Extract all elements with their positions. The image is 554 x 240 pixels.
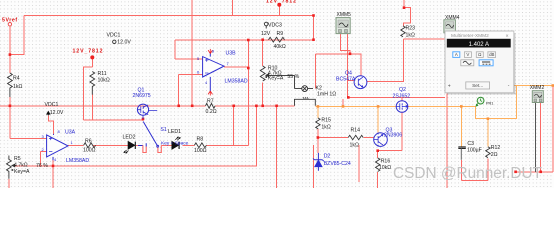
svg-text:Key = Space: Key = Space [161, 140, 189, 146]
svg-text:1kΩ: 1kΩ [350, 142, 359, 148]
svg-text:XMM5: XMM5 [337, 12, 352, 18]
capacitor C3 [458, 147, 466, 149]
node Q1 bottom [142, 118, 145, 121]
svg-text:12.0V: 12.0V [50, 110, 64, 116]
svg-text:S1: S1 [160, 127, 166, 133]
svg-text:VDC3: VDC3 [268, 23, 282, 29]
wire vertical x192 from top edge [191, 0, 193, 106]
node R9 right [312, 38, 315, 41]
wire U3B minus input [179, 75, 203, 106]
wire orange rail y106.4 [315, 105, 475, 107]
wire bottom right line [516, 86, 553, 172]
node rail x262.7 [261, 105, 264, 108]
wire XMM5 right probe to Q4 base [347, 34, 354, 98]
resistor R15 [316, 118, 320, 129]
instrument icon XMM5 [336, 18, 350, 34]
op-amp U3B [203, 54, 224, 92]
svg-text:Q2: Q2 [399, 87, 406, 93]
wire rail branch x277 to bottom edge [276, 106, 278, 188]
node orange R15 [317, 105, 320, 108]
svg-text:R5: R5 [14, 156, 21, 162]
svg-text:5Vref: 5Vref [2, 17, 18, 23]
wire Q2 drain down [379, 112, 402, 151]
wire bottom long line y166 from pot wiper [13, 106, 256, 166]
svg-text:12.0V: 12.0V [117, 40, 131, 46]
wire C3 bottom lead [461, 160, 488, 181]
svg-text:R14: R14 [351, 128, 361, 134]
resistor R9 [269, 37, 285, 42]
svg-text:100Ω: 100Ω [194, 148, 207, 154]
svg-text:55 %: 55 % [287, 74, 299, 80]
node y40 R10 [261, 38, 264, 41]
node 5Vref terminal circle [8, 23, 11, 26]
node R23 top [403, 6, 406, 9]
node U3A pin4 bottom line [52, 165, 55, 168]
svg-text:PR1: PR1 [486, 102, 493, 106]
node orange C3 [460, 105, 463, 108]
svg-text:Key=A: Key=A [268, 76, 284, 82]
svg-text:LED2: LED2 [123, 135, 136, 141]
node gate line start [347, 96, 350, 99]
wire stub x313 bottom [312, 145, 314, 188]
svg-text:2SJ652: 2SJ652 [393, 94, 411, 100]
wire top horizontal rail [24, 15, 313, 17]
wire orange rail corner down right [476, 86, 517, 119]
svg-text:Key=A: Key=A [14, 169, 30, 175]
inductor K2 coil circle [302, 86, 308, 92]
svg-text:dB: dB [489, 52, 494, 57]
node orange R12 [487, 117, 490, 120]
wire Q4 collector line to K2 [315, 54, 361, 89]
wire orange top right segment [514, 85, 553, 87]
power arrow U3B pin8 [208, 49, 212, 54]
svg-text:VDC1: VDC1 [107, 32, 121, 38]
wire XMM4 probe lead below window [446, 94, 448, 189]
wire main rail y106 [0, 105, 206, 107]
svg-text:K2: K2 [316, 86, 322, 92]
svg-text:+: + [448, 83, 451, 89]
node XMM2 red lead bottom [539, 171, 542, 174]
node rail x178.7 [177, 105, 180, 108]
wire R16 leads [377, 151, 379, 188]
transistor Q1 [137, 104, 157, 119]
node rail x256.4 [255, 105, 258, 108]
svg-text:XMM4: XMM4 [445, 15, 460, 21]
wire 5Vref branch up [10, 16, 24, 55]
transistor Q2 [396, 101, 408, 113]
svg-text:R11: R11 [98, 71, 107, 77]
resistor R8 [194, 143, 206, 148]
svg-text:1kΩ: 1kΩ [321, 125, 330, 131]
node XMM5 probe [349, 53, 352, 56]
svg-text:R8: R8 [197, 136, 204, 142]
svg-text:C3: C3 [467, 141, 474, 147]
svg-text:BZV85-C24: BZV85-C24 [324, 161, 351, 167]
svg-text:40kΩ: 40kΩ [274, 44, 286, 50]
LED2 diode [124, 142, 136, 154]
wire R12 bottom lead [487, 158, 489, 180]
svg-text:1.402 A: 1.402 A [469, 42, 489, 48]
svg-text:2Ω: 2Ω [491, 152, 498, 158]
node rail x192.2 [191, 105, 194, 108]
node 12V_7812 top [277, 3, 281, 7]
resistor R6 [84, 143, 96, 148]
wire 12V_7812 left block [83, 59, 143, 120]
multimeter window XMM2 [445, 31, 516, 95]
node bottom right [514, 171, 517, 174]
resistor R7 [206, 103, 216, 108]
svg-text:0.2Ω: 0.2Ω [206, 109, 217, 115]
wire XMM2 icon black lead [535, 102, 537, 172]
node top line right end [312, 14, 315, 17]
wire C3 top lead orange [460, 106, 462, 146]
probe PR1 green [476, 97, 484, 106]
power arrow U3B pin4 [208, 91, 212, 96]
svg-text:V: V [466, 52, 469, 57]
svg-text:12V: 12V [261, 31, 271, 37]
wire U3A minus input [40, 152, 46, 166]
switch S1 [143, 122, 161, 153]
svg-text:12V_7812: 12V_7812 [266, 0, 297, 5]
svg-text:BC547A: BC547A [336, 77, 356, 83]
probe VDC1 circle top [113, 40, 116, 43]
transistor Q4 [354, 76, 367, 89]
inductor K2 secondary bump [295, 99, 316, 106]
svg-text:10kΩ: 10kΩ [379, 165, 391, 171]
LED1 diode [172, 137, 180, 149]
wire U3A plus input [10, 137, 47, 139]
wire S1 right to LED1 to R8 [161, 144, 248, 146]
svg-text:A: A [455, 52, 458, 57]
wire R12 top lead orange [487, 119, 489, 147]
wire Q3 collector lead orange [377, 106, 379, 132]
svg-text:76 %: 76 % [36, 163, 48, 169]
wire R14 line [318, 137, 374, 139]
node rail R4 [9, 105, 12, 108]
pin labels U3A [42, 49, 230, 162]
node orange top right [552, 84, 554, 87]
wire Q4 emitter to R23 column [367, 39, 404, 81]
node 5Vref branch [9, 53, 12, 56]
wire D2 column red part [317, 129, 319, 153]
wire gate line y97.4 [348, 96, 445, 98]
node orange x343 [342, 105, 345, 108]
instrument icon XMM2 [532, 91, 543, 103]
wire R15 top lead orange [317, 106, 319, 118]
svg-text:2N6975: 2N6975 [133, 93, 151, 99]
svg-text:10kΩ: 10kΩ [98, 78, 110, 84]
wire vertical x313.5 top to R9 [313, 16, 315, 40]
node Q3 emitter R16 [376, 149, 379, 152]
svg-text:U3A: U3A [65, 130, 76, 136]
wire XMM2 icon red lead [540, 102, 542, 172]
svg-text:R16: R16 [381, 158, 391, 164]
zener diode D2 [313, 153, 324, 171]
op-amp U3A [47, 134, 68, 160]
power arrow VDC1 12.0V [47, 111, 50, 115]
svg-text:R23: R23 [406, 25, 416, 31]
resistor R23 [401, 26, 405, 37]
svg-text:R7: R7 [207, 98, 214, 104]
wire R23 top jog [404, 0, 411, 26]
transistor Q3 [374, 133, 388, 147]
svg-text:×: × [506, 34, 509, 40]
node U3B output feedback [247, 67, 250, 70]
svg-text:12V_7812: 12V_7812 [73, 49, 104, 55]
svg-text:Multimeter-XMM2: Multimeter-XMM2 [451, 33, 489, 39]
wire stub x343 to orange rail [342, 99, 344, 106]
svg-text:1kΩ: 1kΩ [13, 84, 22, 90]
wire U3A pin4 down to bottom edge [52, 160, 54, 188]
wire R23 junction to XMM4 [404, 38, 445, 40]
wire LED2 to S1 blue [138, 144, 143, 146]
node y40 feedback [247, 39, 250, 42]
wire U3B plus input loop [175, 40, 203, 59]
svg-text:LM358AD: LM358AD [225, 78, 248, 84]
svg-text:R4: R4 [13, 76, 20, 82]
resistor R14 [348, 135, 363, 139]
svg-text:100Ω: 100Ω [83, 148, 96, 154]
wire U3B top loop horizontal y40 [175, 39, 314, 41]
probe VDC3 circle [264, 22, 268, 26]
wire XMM5 left probe [340, 34, 350, 55]
node orange Q3 top [377, 105, 380, 108]
svg-text:4.7kΩ: 4.7kΩ [14, 162, 28, 168]
wire R10 top lead [262, 40, 264, 66]
wire R10 bottom lead [262, 83, 264, 106]
node 12V_7812 [90, 55, 94, 59]
svg-text:VDC1: VDC1 [45, 102, 59, 108]
svg-text:LED1: LED1 [168, 129, 181, 135]
wire vertical x232.5 top [232, 0, 234, 16]
svg-text:CSDN @Runner.DUT: CSDN @Runner.DUT [393, 165, 543, 182]
svg-text:R6: R6 [85, 138, 92, 144]
node R15 R14 D2 [317, 136, 320, 139]
wire R10 wiper to K2 [267, 75, 295, 88]
wire U3B output [224, 66, 248, 68]
node rail x276.6 [275, 105, 278, 108]
svg-text:XMM2: XMM2 [530, 85, 545, 91]
resistor R4 [7, 73, 12, 97]
wire rail branch x233.7 down to R8 line [233, 106, 235, 146]
wire Q1 drain down [142, 119, 144, 121]
svg-text:1kΩ: 1kΩ [406, 32, 415, 38]
wire feedback vertical x248 [247, 40, 249, 145]
wire 12V_7812 node down [278, 5, 280, 16]
svg-text:U3B: U3B [226, 51, 237, 57]
wire 5Vref vertical column [9, 26, 11, 73]
svg-text:1mH 1Ω: 1mH 1Ω [317, 92, 336, 98]
node rail x233.7 [232, 105, 235, 108]
instrument icon XMM4 [444, 20, 456, 33]
wire U3A power top [48, 115, 53, 134]
resistor R5 potentiometer [6, 156, 11, 179]
svg-text:R12: R12 [491, 145, 501, 151]
svg-text:LM358AD: LM358AD [66, 158, 89, 164]
svg-text:R9: R9 [277, 31, 284, 37]
wire pot R5 bottom lead [8, 179, 10, 188]
svg-text:D2: D2 [324, 153, 331, 159]
svg-text:R15: R15 [321, 117, 331, 123]
wire Q2 gate stub [401, 97, 403, 101]
svg-text:Set...: Set... [472, 83, 483, 89]
resistor R10 potentiometer [260, 66, 265, 81]
svg-text:100µF: 100µF [467, 147, 482, 153]
resistor R16 [376, 158, 380, 172]
wire stub x359 bottom [358, 145, 360, 182]
svg-text:2N3906: 2N3906 [384, 132, 402, 138]
resistor R11 [90, 72, 95, 95]
wire U3A output chain to LED2 [68, 144, 143, 146]
resistor R12 [486, 147, 490, 158]
